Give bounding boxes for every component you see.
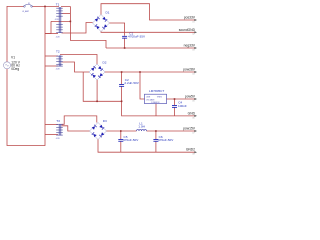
svg-text:470uF-50V: 470uF-50V <box>158 138 174 142</box>
svg-text:D3: D3 <box>103 119 107 123</box>
svg-text:soundGND: soundGND <box>179 28 196 32</box>
svg-text:GND: GND <box>188 111 196 115</box>
svg-text:01: 01 <box>192 21 194 23</box>
svg-text:04: 04 <box>192 73 194 75</box>
svg-text:0Deg: 0Deg <box>11 67 19 71</box>
svg-text:VREG: VREG <box>157 97 163 99</box>
svg-text:D2: D2 <box>103 60 107 64</box>
svg-text:LF_AMP: LF_AMP <box>22 10 30 13</box>
svg-text:470uF-50V: 470uF-50V <box>123 138 139 142</box>
svg-text:D1: D1 <box>106 10 110 14</box>
svg-text:T3: T3 <box>56 119 60 123</box>
svg-text:GND2: GND2 <box>186 148 195 152</box>
svg-text:T2: T2 <box>56 50 60 54</box>
svg-text:pow28V: pow28V <box>183 68 196 72</box>
svg-text:V1: V1 <box>11 55 15 59</box>
svg-text:06: 06 <box>192 117 194 119</box>
svg-text:02: 02 <box>192 34 194 36</box>
svg-text:2.2uF-50V: 2.2uF-50V <box>124 81 139 85</box>
svg-text:F1: F1 <box>28 3 30 5</box>
svg-text:pow15V: pow15V <box>183 127 196 131</box>
svg-text:03: 03 <box>192 49 194 51</box>
svg-text:07: 07 <box>192 132 194 134</box>
svg-text:4700uF-35V: 4700uF-35V <box>128 35 146 39</box>
svg-text:100nF: 100nF <box>178 104 187 108</box>
svg-text:05: 05 <box>192 100 194 102</box>
svg-text:T1: T1 <box>56 2 60 6</box>
svg-text:08: 08 <box>192 154 194 156</box>
svg-text:COMMON: COMMON <box>151 102 160 104</box>
svg-text:VOLTAGE: VOLTAGE <box>146 99 155 102</box>
svg-text:1.0H: 1.0H <box>138 125 145 129</box>
svg-text:pos33V: pos33V <box>184 16 196 20</box>
svg-text:LM7805CT: LM7805CT <box>149 89 164 93</box>
svg-text:pow5V: pow5V <box>185 95 196 99</box>
svg-text:neg33V: neg33V <box>184 44 196 48</box>
